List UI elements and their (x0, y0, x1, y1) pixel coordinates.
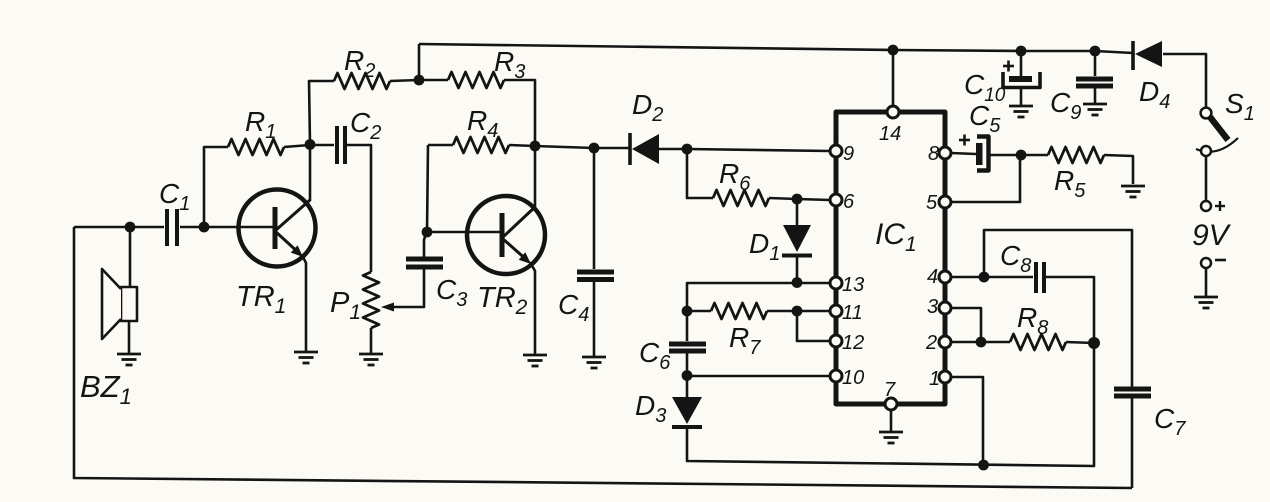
wire TR2 emitter to ground (530, 262, 535, 354)
diode D4 (1133, 41, 1162, 70)
wire left loop down and bottom rail (74, 227, 1132, 488)
IC pin 5 circle (939, 196, 951, 208)
wire R2 right to node (390, 80, 419, 81)
wire D1 bottom to pin13 line (796, 254, 799, 282)
node BZ1 tap (125, 222, 136, 233)
wire R8 right to node (1066, 342, 1094, 343)
node C6 pin10 (682, 370, 693, 381)
wire C5 to R5 node (988, 154, 1048, 157)
capacitor C1 (167, 209, 177, 246)
capacitor C5 electrolytic (976, 137, 989, 171)
transistor TR1 (239, 190, 316, 267)
node pin2 pin3 (976, 337, 987, 348)
wire D3 top stem (686, 376, 689, 397)
wire D1 top (796, 199, 799, 226)
battery plus terminal (1201, 201, 1211, 211)
wire C9 lower stem (1094, 88, 1097, 103)
wire R6 branch (687, 149, 713, 198)
wire C3 top to base node (424, 233, 426, 257)
node R6 D1 pin6 (792, 194, 803, 205)
resistor R5 (1048, 147, 1104, 163)
resistor R7 (711, 303, 767, 319)
wire TR2 base (427, 231, 502, 234)
svg-text:2: 2 (925, 332, 937, 354)
resistor R8 (1010, 334, 1066, 350)
node pin4 C8 (979, 272, 990, 283)
wire pin 8 to C5 (951, 153, 976, 154)
wire C2 right to P1 top (346, 145, 371, 272)
wire pin 7 stub (890, 410, 893, 431)
diode D2 (630, 133, 659, 165)
node R7 pin11 pin12 (792, 306, 803, 317)
wire R5 right to ground (1104, 155, 1133, 184)
wire C10 stems (1020, 51, 1023, 76)
wire pin 3 drop (951, 308, 981, 342)
wire R4 vertical to TR2 base node (427, 145, 428, 232)
wire R4 left riser (428, 144, 453, 147)
svg-text:11: 11 (842, 302, 863, 324)
diode D1 (782, 225, 812, 256)
wire C7 bottom to rail (1131, 397, 1134, 488)
wire P1 bottom to ground (370, 328, 373, 353)
wire node to D2 (535, 146, 630, 148)
ground IC pin 7 (879, 432, 903, 443)
node R1 tap (199, 222, 210, 233)
speaker BZ1 (102, 269, 137, 339)
diode D3 (672, 397, 702, 427)
IC pin 2 circle (939, 336, 951, 348)
wire pin 4 to C8 (951, 276, 1033, 279)
battery plus sign (1215, 201, 1225, 211)
node pin14 rail (888, 45, 899, 56)
wire TR1 collector (309, 145, 312, 201)
node TR2 base (422, 227, 433, 238)
capacitor C6 (669, 344, 706, 351)
wire C10 lower stem (1020, 88, 1023, 105)
IC pin 13 circle (830, 277, 842, 289)
svg-text:7: 7 (884, 379, 896, 401)
IC pin 11 circle (830, 305, 842, 317)
svg-text:14: 14 (879, 123, 901, 145)
node pin1 bottom (978, 460, 989, 471)
wire R3 right down to node (504, 80, 535, 146)
wire TR1 emitter to ground (302, 255, 306, 351)
wire node down to pin 12 (797, 311, 830, 341)
wire switch to battery plus (1205, 157, 1208, 200)
wire TR2 collector (534, 146, 537, 208)
capacitor C10 plus sign (1003, 61, 1014, 72)
capacitor C2 (337, 126, 345, 164)
svg-text:5: 5 (926, 192, 938, 214)
ground C10 (1009, 106, 1033, 117)
node C9 rail (1090, 46, 1101, 57)
wire BZ1 to ground (128, 321, 131, 353)
resistor R6 (713, 190, 769, 206)
wire R4 right to node (509, 145, 535, 146)
svg-text:12: 12 (842, 332, 864, 354)
resistor R1 (228, 139, 284, 155)
wire C4 stem bottom (593, 282, 596, 356)
ground BZ1 (117, 354, 141, 365)
wire pin 5 riser (951, 155, 1020, 202)
wire D3 bottom loop to R8 node (687, 343, 1094, 466)
wire input line left segment (74, 226, 164, 229)
wire C6 top stem (686, 311, 689, 341)
battery minus terminal (1201, 258, 1211, 268)
svg-text:10: 10 (842, 367, 864, 389)
node C5 R5 pin5 (1016, 150, 1027, 161)
node D2 cathode rail (682, 144, 693, 155)
wire node to pin 11 (797, 310, 830, 313)
capacitor C9 (1076, 79, 1113, 86)
node D1 pin13 (792, 277, 803, 288)
wire node to C2 (310, 144, 334, 147)
capacitor C10 electrolytic (1003, 72, 1040, 88)
wire R6 right to node (769, 198, 797, 199)
ground C4 (582, 357, 606, 368)
svg-text:4: 4 (927, 266, 938, 288)
battery minus sign (1215, 259, 1226, 262)
wire pin 13 line (687, 283, 830, 311)
wire top rail (419, 44, 1133, 53)
capacitor C7 (1114, 389, 1151, 396)
wire C9 stems (1094, 51, 1097, 76)
IC pin 9 circle (830, 145, 842, 157)
node C6 R7 (682, 306, 693, 317)
svg-text:6: 6 (843, 191, 855, 213)
resistor R2 (334, 73, 390, 89)
wire C8 right drop (1045, 277, 1094, 343)
capacitor C3 (406, 259, 443, 267)
potentiometer P1 wiper arrow (381, 303, 394, 312)
wire pin 1 drop (951, 377, 983, 465)
svg-text:1: 1 (929, 368, 940, 390)
capacitor C8 (1036, 262, 1044, 293)
svg-text:3: 3 (927, 296, 938, 318)
ground P1 (359, 354, 383, 365)
node C10 rail (1016, 46, 1027, 57)
wire pin 10 line (687, 375, 830, 378)
wire pin4 node riser to C7 (984, 230, 1132, 387)
IC pin 4 circle (939, 271, 951, 283)
ground C9 (1083, 104, 1107, 115)
IC pin 10 circle (830, 370, 842, 382)
svg-text:8: 8 (928, 143, 939, 165)
wire pin 2 to R8 (951, 341, 1010, 344)
wire C4 stem top (593, 148, 596, 269)
wire R7 left stub (687, 310, 711, 313)
ground R5 (1121, 186, 1145, 197)
wire pin 14 stub (892, 50, 895, 106)
svg-text:9V: 9V (1192, 219, 1232, 252)
ground TR1 emitter (294, 352, 318, 363)
node R2 R3 junction (414, 75, 425, 86)
svg-text:9: 9 (843, 143, 854, 165)
node R8 C8 right (1088, 337, 1100, 349)
node TR1 collector (305, 139, 316, 150)
resistor R4 (453, 137, 509, 153)
wire R1 branch vertical (204, 147, 228, 227)
IC pin 8 circle (939, 147, 951, 159)
IC pin 7 circle (885, 398, 897, 410)
wire D2 to pin 9 (658, 149, 830, 151)
wire C6 bottom to pin10 line (686, 353, 689, 375)
capacitor C5 plus sign (959, 135, 970, 146)
wire D4 to switch corner (1163, 54, 1206, 108)
resistor R3 (448, 72, 504, 88)
wire R1 right to node (284, 145, 310, 147)
wire node to pin 6 (797, 199, 830, 200)
wire BZ1 branch (129, 227, 132, 287)
transistor TR2 (467, 196, 545, 274)
IC U1 box (836, 112, 945, 404)
wire R3 left (419, 79, 448, 82)
wire input line to TR1 base (180, 226, 275, 229)
node TR2 collector (530, 141, 541, 152)
wire P1 wiper line (393, 268, 424, 307)
IC pin 6 circle (830, 194, 842, 206)
IC pin 3 circle (939, 302, 951, 314)
IC pin 1 circle (939, 371, 951, 383)
wire battery minus to ground (1205, 268, 1208, 296)
wire R7 right to node (767, 310, 797, 313)
svg-text:13: 13 (842, 274, 864, 296)
ground TR2 emitter (523, 355, 547, 366)
capacitor C4 (577, 272, 614, 280)
wire node to R2 riser (309, 81, 334, 144)
IC pin 14 circle (887, 106, 899, 118)
ground battery (1194, 297, 1218, 308)
switch S1 (1196, 108, 1238, 156)
potentiometer P1 body (363, 272, 379, 328)
node C4 tap (589, 143, 600, 154)
wire riser to top rail (418, 44, 421, 80)
IC pin 12 circle (830, 335, 842, 347)
